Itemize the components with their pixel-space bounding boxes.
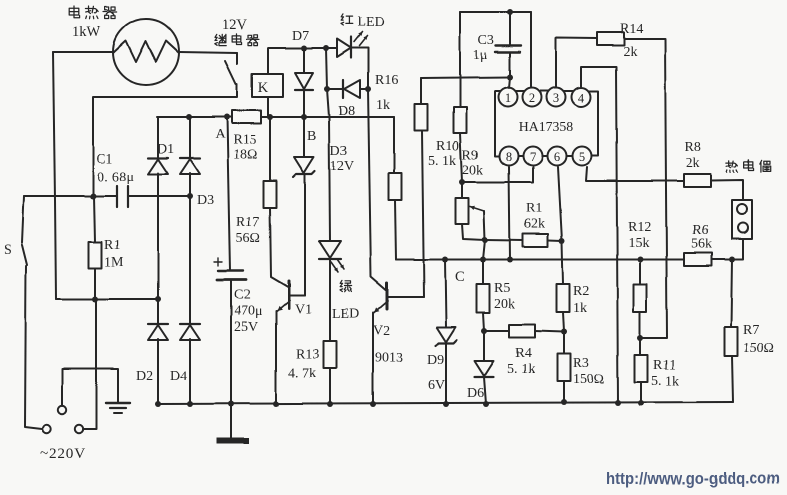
label 电热器 1kW	[69, 6, 116, 40]
svg-text:5. 1k: 5. 1k	[428, 154, 456, 169]
wire green chain top	[326, 48, 330, 241]
node dot	[442, 257, 448, 263]
svg-text:20k: 20k	[462, 163, 483, 178]
node dot	[481, 328, 487, 334]
transistor V1	[277, 281, 305, 311]
node dot	[267, 114, 273, 120]
resistor R5	[477, 284, 490, 313]
resistor R8	[684, 174, 711, 187]
label C3 1μ	[473, 33, 494, 63]
svg-text:A: A	[215, 127, 226, 142]
svg-text:HA17358: HA17358	[519, 119, 574, 134]
svg-text:150Ω: 150Ω	[573, 372, 604, 387]
svg-text:K: K	[258, 80, 269, 96]
svg-text:R3: R3	[573, 356, 589, 371]
wire S top	[22, 196, 24, 243]
node dot	[638, 400, 644, 406]
node dot	[187, 193, 193, 199]
ground symbol	[106, 403, 130, 413]
label R1 62k	[524, 201, 545, 232]
label R7 150Ω	[743, 323, 774, 356]
wire V2 base from D8	[368, 89, 386, 290]
node dot	[561, 329, 567, 335]
wire C2 bottom	[230, 280, 232, 404]
svg-text:~220V: ~220V	[40, 445, 86, 462]
capacitor C2	[214, 258, 246, 280]
label R6 56k	[691, 223, 712, 252]
svg-text:2k: 2k	[686, 156, 700, 171]
wire ground bus	[158, 402, 733, 404]
wire R17 top	[269, 117, 271, 181]
capacitor C3	[495, 12, 521, 77]
label A / R15 18Ω	[215, 127, 257, 163]
label D4	[170, 369, 187, 384]
label D3 12V	[330, 144, 354, 174]
wire R7 bottom	[732, 356, 733, 402]
label R5 20k	[494, 281, 515, 312]
wire green LED to R13	[329, 259, 331, 341]
wire AC2	[56, 298, 158, 300]
svg-text:C3: C3	[478, 33, 494, 48]
label R10 5.1k	[428, 139, 459, 169]
label R3 150Ω	[573, 356, 604, 387]
wire R8 right	[711, 180, 743, 200]
wire R11 top	[639, 338, 641, 355]
svg-text:20k: 20k	[494, 297, 515, 312]
resistor R7	[725, 327, 738, 356]
svg-text:R1: R1	[104, 238, 120, 253]
svg-text:15k: 15k	[628, 236, 649, 251]
node dot	[92, 296, 98, 302]
resistor R17	[264, 181, 277, 208]
svg-text:56k: 56k	[691, 237, 712, 252]
svg-text:D3: D3	[197, 193, 214, 208]
plug earth pin	[58, 406, 66, 414]
svg-text:7: 7	[530, 150, 536, 164]
green LED arrows	[331, 259, 344, 272]
wire R1 bottom	[94, 268, 96, 299]
wire pin7 line	[462, 167, 533, 182]
resistor R13	[324, 341, 337, 368]
wire V1 emitter down	[275, 311, 277, 404]
svg-text:5: 5	[579, 150, 585, 164]
wire D8 left	[327, 88, 344, 90]
label D2	[136, 369, 153, 384]
label R17 56Ω	[236, 215, 260, 246]
svg-text:V1: V1	[295, 302, 312, 317]
label D9 6V	[427, 353, 445, 393]
wire AC bus	[24, 195, 190, 197]
label D8	[338, 104, 355, 119]
svg-text:6: 6	[554, 150, 560, 164]
wire V1 collector up	[304, 174, 306, 295]
label R14 2k	[620, 22, 643, 60]
resistor R10	[415, 104, 428, 131]
label C1 0.68μ	[96, 152, 134, 185]
diode D4	[180, 324, 200, 340]
svg-text:9013: 9013	[375, 351, 403, 366]
wire relay contact down	[93, 84, 237, 196]
potentiometer RP	[456, 198, 486, 240]
wire R11 bottom	[640, 382, 642, 403]
wire R12 top	[639, 260, 641, 285]
label R1 1M	[104, 238, 124, 270]
transistor V2	[374, 283, 424, 313]
wire S bottom	[25, 266, 42, 429]
resistor R6	[684, 253, 712, 266]
svg-text:R16: R16	[375, 73, 398, 88]
resistor R1 62k	[523, 234, 548, 247]
svg-text:5. 1k: 5. 1k	[651, 374, 679, 389]
node dot	[480, 257, 486, 263]
resistor R14	[597, 33, 624, 46]
node dot	[301, 114, 307, 120]
svg-text:D9: D9	[427, 353, 444, 368]
relay contact blade	[225, 61, 236, 84]
wire R2 top	[562, 241, 563, 284]
label C	[455, 269, 465, 285]
node dot	[729, 257, 735, 263]
wire R7 top	[731, 260, 732, 328]
wire top bus	[268, 47, 337, 49]
node dot	[370, 401, 376, 407]
svg-text:5. 1k: 5. 1k	[507, 362, 535, 377]
wire R3 bottom	[563, 381, 565, 402]
svg-text:D1: D1	[157, 142, 174, 157]
wire pot top	[461, 182, 463, 198]
svg-text:R12: R12	[628, 220, 651, 235]
thermocouple 热电偶	[732, 200, 752, 239]
svg-text:R13: R13	[296, 347, 319, 362]
label 12V 继电器	[215, 17, 259, 46]
svg-text:D2: D2	[136, 369, 153, 384]
svg-text:D4: D4	[170, 369, 187, 384]
plug prong right	[75, 425, 83, 433]
capacitor C1	[117, 186, 128, 207]
node dot	[155, 401, 161, 407]
svg-text:150Ω: 150Ω	[743, 341, 774, 356]
wire heater right to relay contact	[179, 52, 237, 64]
svg-text:1M: 1M	[104, 255, 124, 270]
wire D9 top	[445, 260, 446, 328]
wire C bus	[396, 259, 732, 261]
wire V2 emitter down	[372, 313, 374, 404]
red LED arrows	[354, 32, 367, 46]
diode D2	[148, 324, 168, 340]
node dot	[224, 114, 230, 120]
svg-text:12V: 12V	[330, 159, 354, 174]
resistor R4	[509, 325, 535, 338]
svg-text:2k: 2k	[623, 45, 637, 60]
label R11 5.1k	[651, 358, 679, 389]
wire R16 bottom	[395, 200, 396, 260]
label V2 9013	[373, 324, 403, 366]
node dot	[507, 74, 513, 80]
svg-text:D3: D3	[330, 144, 347, 159]
wire heater left rail down	[53, 52, 56, 299]
wire zener top	[303, 117, 305, 157]
svg-text:1k: 1k	[573, 301, 587, 316]
label B	[307, 129, 316, 144]
wire R17 to V1 base	[270, 208, 288, 287]
diode D3 bridge	[180, 158, 200, 174]
svg-text:C2: C2	[234, 288, 250, 303]
wire R4 right	[535, 331, 564, 332]
resistor R15	[232, 111, 261, 124]
wire R2 bottom	[563, 312, 564, 332]
label V1	[295, 302, 312, 317]
label R13 4.7k	[288, 347, 319, 381]
svg-text:6V: 6V	[428, 378, 445, 393]
svg-text:4. 7k: 4. 7k	[288, 366, 316, 381]
node dot	[323, 45, 329, 51]
wire D7 bottom	[303, 90, 305, 117]
svg-text:12V: 12V	[222, 17, 248, 33]
wire K top	[267, 48, 269, 74]
node dot	[90, 193, 96, 199]
wire R14 right	[624, 39, 667, 338]
svg-text:R15: R15	[233, 133, 256, 148]
svg-text:R1: R1	[526, 201, 542, 216]
resistor R11	[635, 355, 648, 382]
wire R9 bottom	[460, 133, 462, 182]
zener D3 12V	[293, 157, 315, 177]
label S	[4, 243, 12, 258]
wire pin2 riser	[530, 12, 532, 87]
svg-text:0. 68μ: 0. 68μ	[97, 170, 134, 185]
svg-text:http://www.go-gddq.com: http://www.go-gddq.com	[606, 470, 780, 488]
wire D8 right	[360, 88, 368, 90]
label 绿 LED	[332, 280, 359, 322]
wire bridge rail2	[189, 117, 191, 404]
node dot	[507, 257, 513, 263]
wire R9 top	[459, 12, 461, 107]
wire D6 top	[483, 331, 485, 361]
label R8 2k	[685, 140, 701, 171]
label 红 LED	[341, 14, 384, 30]
svg-text:8: 8	[506, 150, 512, 164]
diode D6	[475, 361, 494, 377]
wire pin6 down	[558, 167, 562, 241]
svg-text:2: 2	[529, 91, 535, 105]
svg-text:R6: R6	[692, 223, 708, 238]
relay coil K	[252, 74, 283, 97]
svg-text:R5: R5	[494, 281, 510, 296]
svg-text:56Ω: 56Ω	[236, 231, 260, 246]
svg-text:V2: V2	[373, 324, 390, 339]
resistor R16	[389, 173, 402, 200]
wire pin1 riser	[509, 77, 510, 88]
svg-text:1: 1	[505, 91, 511, 105]
svg-text:B: B	[307, 129, 316, 144]
wire R16 top	[393, 117, 395, 173]
label R2 1k	[573, 284, 589, 316]
op-amp U1 HA17358	[495, 88, 598, 166]
node dot	[228, 401, 234, 407]
wire D9 bottom	[445, 344, 447, 404]
svg-text:C: C	[455, 269, 465, 285]
svg-text:R10: R10	[436, 139, 459, 154]
svg-text:3: 3	[553, 91, 559, 105]
wire R1 right	[548, 240, 562, 243]
svg-text:LED: LED	[357, 15, 384, 30]
svg-text:C1: C1	[96, 152, 112, 167]
wire pin3 riser	[556, 38, 597, 87]
svg-text:R8: R8	[685, 140, 701, 155]
wire R13 bottom	[329, 368, 331, 404]
resistor R9	[454, 107, 467, 133]
resistor R2	[557, 284, 570, 312]
svg-text:470μ: 470μ	[234, 304, 263, 319]
label R4 5.1k	[507, 346, 535, 377]
wire pin5 line	[586, 167, 684, 181]
svg-text:R2: R2	[573, 284, 589, 299]
wire top DC bus	[157, 116, 394, 118]
LED green 绿 LED	[319, 241, 341, 259]
label ~220V	[40, 445, 86, 462]
svg-text:D6: D6	[467, 386, 484, 401]
diode D1	[148, 158, 168, 174]
label D3	[197, 193, 214, 208]
wire heater left	[53, 51, 114, 53]
wire thermocouple bottom	[732, 239, 743, 260]
svg-text:1kW: 1kW	[72, 24, 101, 40]
node dot	[507, 9, 513, 15]
wire earth	[62, 369, 118, 406]
svg-text:R7: R7	[743, 323, 759, 338]
label D6	[467, 386, 484, 401]
node dot	[443, 401, 449, 407]
zener D9	[436, 327, 457, 346]
wire bridge rail1	[157, 117, 159, 404]
svg-text:R11: R11	[653, 358, 676, 373]
label R16 1k	[375, 73, 398, 113]
wire V2 collector to R10	[422, 131, 424, 297]
node dot	[365, 86, 371, 92]
svg-text:1μ: 1μ	[473, 48, 488, 63]
svg-text:62k: 62k	[524, 217, 545, 232]
wire A to C2	[227, 117, 230, 271]
wire R4 left	[484, 330, 509, 332]
node dot	[301, 45, 307, 51]
heater 电热器 1kW	[113, 19, 179, 85]
node dot	[483, 401, 489, 407]
wire pot to C bus	[483, 240, 485, 260]
wire R5 top	[482, 260, 484, 285]
label 热电偶	[726, 160, 770, 172]
node dot	[637, 335, 643, 341]
wire pin4 loop	[581, 67, 618, 403]
node dot	[327, 401, 333, 407]
label R9 20k	[462, 148, 483, 178]
label R12 15k	[628, 220, 651, 251]
resistor R12	[634, 284, 647, 312]
svg-text:R14: R14	[620, 22, 643, 37]
wire D6 bottom	[484, 377, 486, 404]
node dot	[273, 401, 279, 407]
label D7	[292, 29, 309, 44]
wire K bottom	[267, 97, 269, 117]
node dot	[559, 238, 565, 244]
node dot	[615, 400, 621, 406]
wire pin8 down	[509, 167, 510, 260]
diode D8	[343, 80, 360, 98]
svg-text:1k: 1k	[376, 98, 390, 113]
plug prong left	[43, 425, 51, 433]
wire R1 left	[485, 239, 523, 242]
switch S blade	[22, 245, 27, 265]
svg-text:4: 4	[578, 91, 585, 105]
wire pot bottom	[462, 224, 485, 240]
node dot	[324, 86, 330, 92]
node dot	[482, 237, 488, 243]
watermark url	[606, 470, 780, 488]
resistor R3	[558, 354, 571, 381]
wire R5 bottom	[483, 313, 484, 331]
label C2 470μ 25V	[234, 288, 263, 335]
node dot	[186, 114, 192, 120]
wire R1 top	[94, 196, 95, 242]
node dot	[187, 401, 193, 407]
svg-text:18Ω: 18Ω	[233, 148, 257, 163]
diode D7	[295, 73, 313, 90]
wire R10 top	[420, 78, 422, 104]
wire D7 top	[303, 48, 305, 73]
node dot	[459, 179, 465, 185]
wire R12 bottom	[639, 312, 641, 338]
wire red LED cathode	[351, 48, 368, 89]
svg-text:R17: R17	[236, 215, 259, 230]
svg-text:25V: 25V	[234, 320, 258, 335]
node dot	[637, 257, 643, 263]
node dot	[561, 399, 567, 405]
svg-text:LED: LED	[332, 307, 359, 322]
svg-text:S: S	[4, 243, 12, 258]
svg-text:R4: R4	[515, 346, 531, 361]
wire top y12	[460, 11, 531, 13]
svg-text:R9: R9	[462, 148, 478, 163]
resistor R1 1M	[89, 242, 102, 268]
LED red 红 LED	[337, 37, 351, 58]
wire R3 top	[563, 332, 565, 354]
chassis ground	[216, 404, 249, 444]
wire y77	[421, 77, 510, 78]
node dot	[155, 296, 161, 302]
wire prong right up	[83, 300, 96, 429]
svg-text:D7: D7	[292, 29, 309, 44]
label D1	[157, 142, 174, 157]
